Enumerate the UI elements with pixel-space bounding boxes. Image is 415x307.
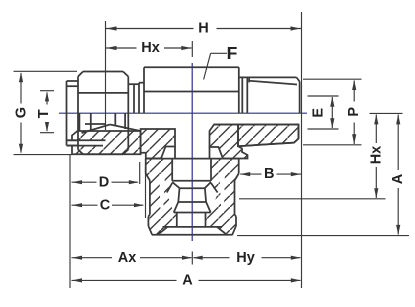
svg-text:P: P [346, 107, 362, 117]
svg-text:T: T [36, 109, 52, 118]
svg-text:F: F [227, 43, 238, 63]
svg-text:A: A [390, 173, 406, 184]
svg-text:A: A [182, 273, 193, 289]
svg-text:B: B [264, 166, 274, 182]
svg-text:H: H [198, 21, 208, 37]
svg-text:Hy: Hy [236, 250, 255, 266]
svg-text:E: E [311, 108, 327, 118]
svg-text:G: G [13, 107, 29, 118]
svg-text:C: C [100, 197, 111, 213]
svg-text:Hx: Hx [368, 146, 384, 165]
svg-text:D: D [99, 174, 109, 190]
svg-text:Ax: Ax [118, 250, 137, 266]
svg-text:Hx: Hx [141, 40, 160, 56]
